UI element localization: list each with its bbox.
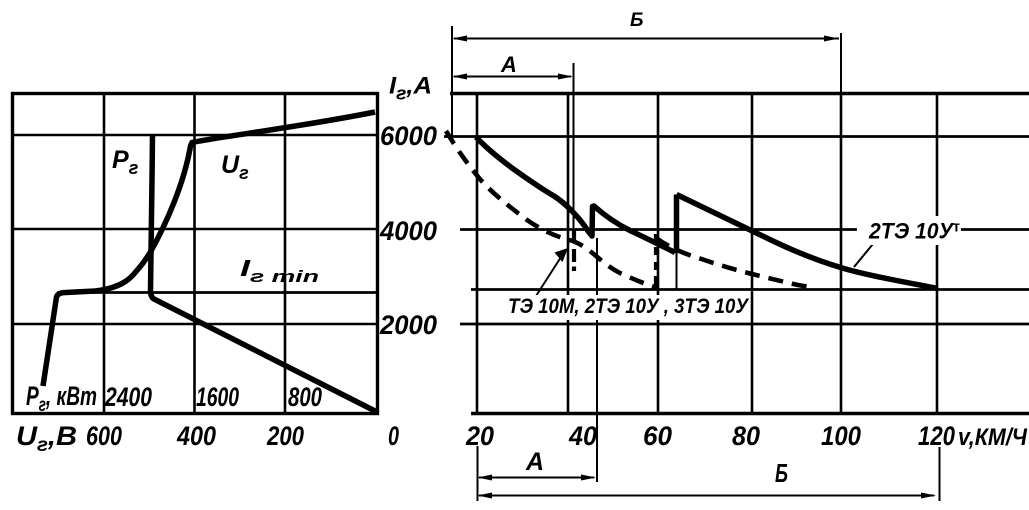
svg-text:120: 120 xyxy=(918,421,955,451)
svg-text:А: А xyxy=(500,52,517,77)
svg-text:0: 0 xyxy=(388,421,399,451)
svg-text:Iг min: Iг min xyxy=(240,255,319,286)
svg-text:800: 800 xyxy=(288,382,322,412)
svg-text:2ТЭ 10Ут: 2ТЭ 10Ут xyxy=(868,219,960,244)
svg-text:2400: 2400 xyxy=(104,382,152,412)
svg-text:20: 20 xyxy=(465,421,494,451)
svg-text:Uг,В: Uг,В xyxy=(16,421,77,456)
svg-text:100: 100 xyxy=(821,421,861,451)
svg-text:200: 200 xyxy=(266,421,304,451)
svg-text:4000: 4000 xyxy=(379,216,437,246)
svg-text:Pг, кВт: Pг, кВт xyxy=(26,381,97,416)
svg-text:Б: Б xyxy=(630,10,643,31)
svg-text:Iг,A: Iг,A xyxy=(389,73,432,104)
svg-text:80: 80 xyxy=(732,421,760,451)
svg-text:2000: 2000 xyxy=(379,310,437,340)
svg-text:v,КМ/Ч: v,КМ/Ч xyxy=(958,424,1028,451)
svg-text:6000: 6000 xyxy=(380,121,437,151)
svg-text:Б: Б xyxy=(775,458,788,488)
svg-text:600: 600 xyxy=(86,421,122,451)
svg-text:А: А xyxy=(525,448,544,476)
svg-text:Uг: Uг xyxy=(221,151,249,183)
svg-text:Pг: Pг xyxy=(112,146,139,178)
svg-text:400: 400 xyxy=(176,421,216,451)
svg-text:40: 40 xyxy=(568,421,597,451)
svg-text:1600: 1600 xyxy=(196,382,239,412)
svg-text:60: 60 xyxy=(643,421,672,451)
svg-text:ТЭ 10М, 2ТЭ 10У , 3ТЭ 10У: ТЭ 10М, 2ТЭ 10У , 3ТЭ 10У xyxy=(508,295,750,318)
